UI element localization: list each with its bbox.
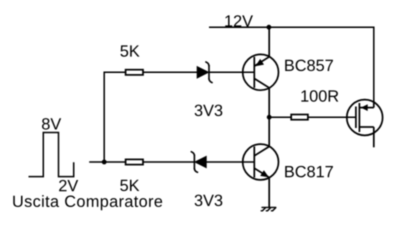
node: junction dot on 12V rail at Q1 emitter: [267, 25, 272, 30]
wire: R3 to Q3 gate: [309, 116, 356, 118]
wire: input stub from waveform to input node: [89, 161, 104, 163]
wire: R1 to D1 anode: [143, 71, 197, 73]
wire: D2 anode to Q2 base: [206, 161, 254, 163]
node: input junction dot (comparator output node): [102, 160, 107, 165]
label 3V3 (top): [195, 105, 223, 117]
label BC817: [285, 166, 333, 178]
label 5K (bottom): [120, 180, 139, 191]
zener diode D2 3V3 (bottom, cathode left): [191, 152, 206, 173]
waveform: comparator output pulse annotation: [29, 133, 74, 177]
label 5K (top): [120, 45, 139, 56]
label 12V: [225, 15, 253, 26]
label 100R: [301, 90, 338, 102]
transistor Q3 P-MOSFET: [347, 100, 383, 148]
label BC857: [285, 60, 333, 72]
wire: Q1 emitter lead from 12V rail: [268, 27, 270, 57]
label 2V: [59, 180, 78, 191]
wire: Q2 collector lead up to junction: [268, 117, 270, 147]
transistor Q2 BC817 NPN: [243, 144, 279, 180]
wire: left vertical branch from top 5K corner down to input node: [104, 72, 125, 162]
wire: Q2 emitter lead down to ground: [268, 177, 270, 207]
wire: R2 to D2 cathode: [143, 161, 195, 163]
wire: 12V top rail with corner down to Q3 drain: [209, 27, 374, 101]
wire: input node to R2: [104, 161, 125, 163]
resistor R2 5K (bottom): [126, 159, 143, 164]
node: junction dot between Q1 and Q2 collectors: [267, 115, 272, 120]
transistor Q1 BC857 PNP: [243, 54, 279, 90]
wire: junction to R3: [269, 116, 290, 118]
label 8V: [42, 118, 61, 130]
label Uscita Comparatore: [13, 195, 162, 210]
resistor R3 100R: [291, 115, 308, 120]
label 3V3 (bottom): [195, 195, 223, 207]
zener diode D1 3V3 (top, cathode right): [197, 62, 212, 83]
wire: D1 cathode to Q1 base: [209, 71, 254, 73]
ground symbol: [261, 207, 276, 210]
wire: Q1 collector lead down to junction: [268, 88, 270, 118]
resistor R1 5K (top): [126, 70, 143, 75]
